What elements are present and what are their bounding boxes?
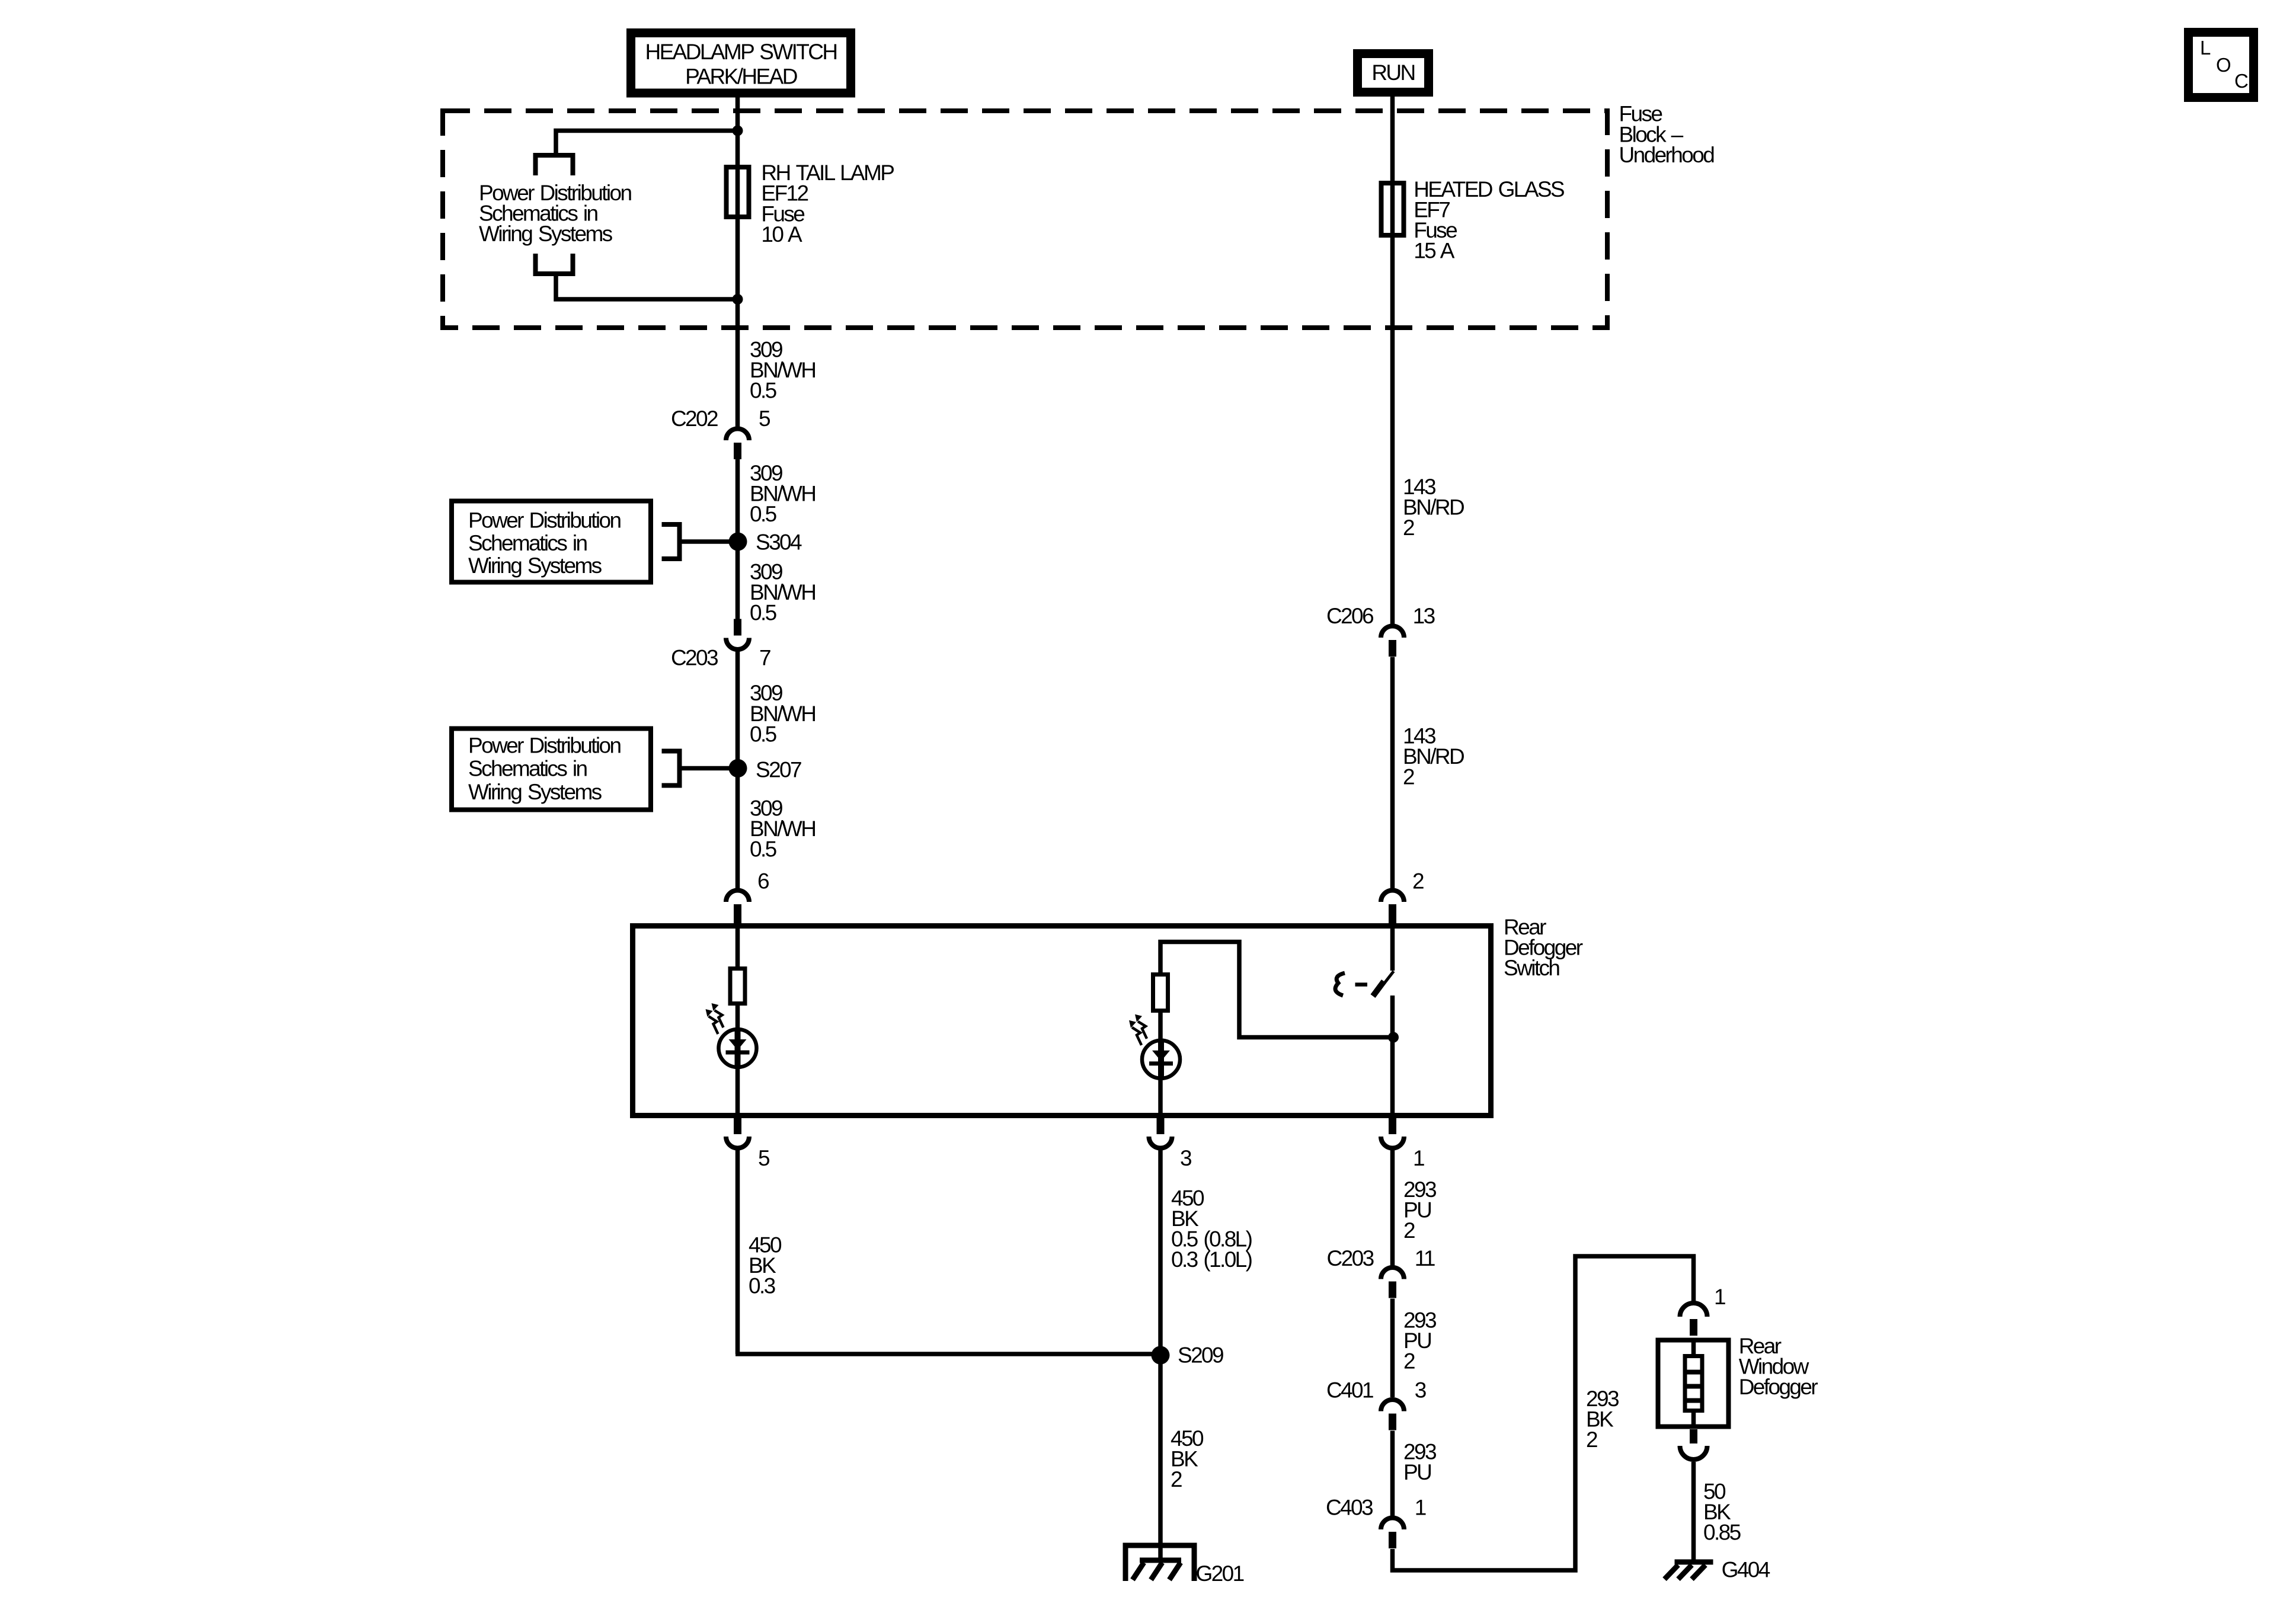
- fuse EF7: [1382, 183, 1404, 235]
- svg-text:0.3: 0.3: [749, 1274, 775, 1298]
- svg-text:13: 13: [1413, 604, 1435, 628]
- connector pin 5 below switch: [726, 1118, 749, 1148]
- label Power Distribution Schematics in Wiring Systems (fuse block): [479, 181, 631, 246]
- label wire 309 BN/WH 0.5 (4): [750, 681, 815, 746]
- switch actuator curl: [1335, 973, 1345, 996]
- svg-text:S207: S207: [756, 758, 801, 782]
- svg-text:10 A: 10 A: [761, 222, 802, 247]
- switch blade (rear defogger switch): [1375, 971, 1394, 996]
- wire resistor to LED left: [736, 1006, 740, 1032]
- svg-text:6: 6: [757, 869, 769, 894]
- svg-text:2: 2: [1412, 869, 1424, 894]
- label wire 450 BK 0.3: [749, 1233, 782, 1298]
- svg-text:S209: S209: [1178, 1343, 1223, 1368]
- wire into box pin 6 branch: [736, 925, 740, 966]
- svg-text:L: L: [2200, 37, 2211, 59]
- label wire 450 BK 2: [1171, 1426, 1204, 1491]
- svg-text:O: O: [2216, 54, 2231, 76]
- label wire 143 BN/RD 2 (1): [1403, 475, 1464, 540]
- wire middle branch L-path to switch: [1160, 942, 1393, 1038]
- svg-text:Power Distribution: Power Distribution: [468, 734, 621, 758]
- svg-text:2: 2: [1403, 765, 1414, 789]
- wire from headlamp switch through fuse EF12 to C202: [736, 97, 740, 428]
- wire LED middle to box bottom: [1158, 1078, 1163, 1115]
- bracket to S304: [662, 524, 680, 559]
- wire LED left to box bottom: [736, 1067, 740, 1115]
- splice S207: [729, 759, 747, 777]
- svg-text:5: 5: [759, 406, 770, 431]
- svg-text:0.5: 0.5: [750, 502, 777, 526]
- LED middle (on indicator): [1129, 1014, 1180, 1080]
- wire C403 to riser corner: [1393, 1256, 1694, 1570]
- fuse block underhood dashed box: [443, 111, 1607, 328]
- label wire 293 PU 2 (1): [1403, 1177, 1436, 1243]
- label fuse EF7: [1414, 177, 1564, 263]
- reference box Power Distribution (S207): [452, 729, 651, 810]
- svg-text:0.5: 0.5: [750, 601, 777, 625]
- wire branch to power distribution bracket top: [556, 131, 738, 156]
- svg-text:C202: C202: [671, 406, 718, 431]
- node junction top: [733, 126, 743, 136]
- reference box Power Distribution (S304): [452, 501, 651, 582]
- label Rear Window Defogger: [1739, 1334, 1818, 1399]
- svg-text:RUN: RUN: [1371, 60, 1414, 85]
- wire from bracket bottom back to main wire: [556, 274, 738, 299]
- svg-text:PARK/HEAD: PARK/HEAD: [685, 64, 797, 88]
- wire C401 to C403: [1390, 1431, 1395, 1518]
- svg-text:0.5: 0.5: [750, 722, 777, 746]
- label wire 293 PU (3): [1403, 1439, 1436, 1484]
- ground G404: [1665, 1562, 1713, 1579]
- svg-text:0.5: 0.5: [750, 379, 777, 403]
- connector below rear window defogger: [1680, 1429, 1707, 1459]
- svg-text:G201: G201: [1196, 1561, 1244, 1586]
- resistor middle (indicator): [1153, 975, 1168, 1011]
- node junction lower: [733, 294, 743, 305]
- label wire 143 BN/RD 2 (2): [1403, 724, 1464, 789]
- wire pin 1 to C203(11): [1390, 1150, 1395, 1267]
- label fuse EF12: [761, 161, 894, 247]
- connector C206 pin 13: [1381, 626, 1404, 657]
- svg-text:2: 2: [1403, 516, 1414, 540]
- wire resistor middle to LED: [1158, 1013, 1163, 1041]
- connector C203 pin 7: [726, 619, 749, 649]
- resistor left (illumination): [730, 969, 745, 1004]
- connector C403 pin 1: [1381, 1518, 1404, 1549]
- label wire 293 PU 2 (2): [1403, 1308, 1436, 1374]
- svg-text:C203: C203: [671, 646, 718, 670]
- svg-text:7: 7: [759, 646, 770, 670]
- LOC legend box: [2189, 33, 2254, 98]
- svg-text:3: 3: [1180, 1146, 1191, 1170]
- svg-text:S304: S304: [756, 530, 802, 554]
- svg-text:Underhood: Underhood: [1619, 143, 1715, 167]
- svg-text:Defogger: Defogger: [1739, 1375, 1818, 1399]
- splice S209: [1152, 1346, 1170, 1365]
- wire switch upper from pin 2: [1390, 925, 1395, 971]
- wire RUN through fuse EF7 to C206: [1390, 92, 1395, 625]
- svg-text:PU: PU: [1403, 1460, 1431, 1484]
- svg-text:C401: C401: [1326, 1378, 1373, 1403]
- svg-text:G404: G404: [1722, 1558, 1770, 1582]
- svg-text:1: 1: [1413, 1146, 1424, 1170]
- splice S304: [729, 533, 747, 551]
- wire C203 to S207: [736, 651, 740, 889]
- label wire 309 BN/WH 0.5 (3): [750, 559, 815, 625]
- label wire 309 BN/WH 0.5 (1): [750, 338, 815, 403]
- svg-text:2: 2: [1171, 1467, 1182, 1491]
- label wire 50 BK 0.85: [1703, 1480, 1741, 1545]
- svg-text:Wiring Systems: Wiring Systems: [468, 780, 602, 804]
- wire S209 to G201: [1158, 1355, 1163, 1563]
- switch actuator dash: [1355, 982, 1368, 987]
- bracket top (power distribution stub): [536, 155, 573, 175]
- wire switch lower contact: [1390, 996, 1395, 1115]
- svg-text:15 A: 15 A: [1414, 239, 1455, 263]
- component box Rear Defogger Switch: [633, 926, 1491, 1116]
- component box Rear Window Defogger: [1658, 1340, 1729, 1427]
- bracket bottom (power distribution stub): [536, 254, 573, 274]
- wire bracket to S304: [680, 539, 738, 544]
- svg-text:0.3 (1.0L): 0.3 (1.0L): [1171, 1247, 1252, 1272]
- svg-text:HEADLAMP SWITCH: HEADLAMP SWITCH: [645, 40, 836, 64]
- svg-text:2: 2: [1586, 1427, 1597, 1452]
- wire grid bottom to box: [1691, 1411, 1696, 1429]
- svg-text:Power Distribution: Power Distribution: [468, 508, 621, 533]
- heater grid element: [1685, 1356, 1702, 1411]
- svg-text:0.5: 0.5: [750, 837, 777, 862]
- bracket to S207: [662, 751, 680, 786]
- svg-text:Wiring Systems: Wiring Systems: [479, 222, 613, 246]
- svg-text:C206: C206: [1326, 604, 1373, 628]
- connector pin 3 below switch: [1149, 1118, 1172, 1148]
- svg-text:3: 3: [1415, 1378, 1426, 1403]
- svg-text:1: 1: [1415, 1496, 1426, 1520]
- wire C203(11) to C401: [1390, 1299, 1395, 1398]
- label wire 293 BK 2: [1586, 1387, 1619, 1452]
- wire pin 5 to corner: [736, 1150, 740, 1354]
- svg-text:Schematics in: Schematics in: [468, 756, 587, 780]
- svg-text:1: 1: [1714, 1285, 1725, 1309]
- LED left (illumination lamp): [706, 1003, 757, 1069]
- svg-text:Schematics in: Schematics in: [468, 531, 587, 555]
- component box HEADLAMP SWITCH PARK/HEAD: [631, 33, 851, 94]
- connector pin 6 into switch: [726, 891, 749, 923]
- wire bracket to S207: [680, 766, 738, 771]
- connector C401 pin 3: [1381, 1400, 1404, 1430]
- connector C203 pin 11: [1381, 1267, 1404, 1298]
- svg-text:C203: C203: [1327, 1246, 1374, 1270]
- connector pin 1 rear window defogger: [1680, 1303, 1707, 1336]
- ground G201: [1125, 1545, 1194, 1581]
- svg-text:Wiring Systems: Wiring Systems: [468, 553, 602, 578]
- wire defogger to G404: [1691, 1462, 1696, 1562]
- svg-text:2: 2: [1403, 1349, 1415, 1374]
- label wire 450 BK 0.5 (0.8L) 0.3 (1.0L): [1171, 1186, 1252, 1272]
- wire C206 to pin 2: [1390, 657, 1395, 890]
- component box RUN: [1358, 54, 1429, 92]
- connector pin 2 into switch: [1381, 891, 1404, 924]
- wire C202 to S304: [736, 459, 740, 619]
- svg-text:C403: C403: [1326, 1496, 1373, 1520]
- svg-text:2: 2: [1403, 1218, 1415, 1243]
- fuse EF12: [727, 167, 749, 217]
- svg-text:0.85: 0.85: [1703, 1521, 1741, 1545]
- connector pin 1 below switch: [1381, 1118, 1404, 1148]
- wire corner to S209: [736, 1352, 1160, 1356]
- label Fuse Block - Underhood: [1619, 102, 1715, 167]
- svg-text:Switch: Switch: [1504, 956, 1559, 980]
- node switch to indicator junction: [1388, 1032, 1399, 1043]
- svg-text:11: 11: [1415, 1246, 1435, 1270]
- svg-text:5: 5: [758, 1146, 770, 1170]
- label Rear Defogger Switch: [1504, 915, 1583, 980]
- label wire 309 BN/WH 0.5 (2): [750, 461, 815, 526]
- wire into grid top: [1691, 1338, 1696, 1356]
- connector C202 pin 5: [726, 429, 749, 459]
- wire pin 3 to S209: [1158, 1150, 1163, 1354]
- svg-text:C: C: [2234, 70, 2248, 92]
- label wire 309 BN/WH 0.5 (5): [750, 796, 815, 862]
